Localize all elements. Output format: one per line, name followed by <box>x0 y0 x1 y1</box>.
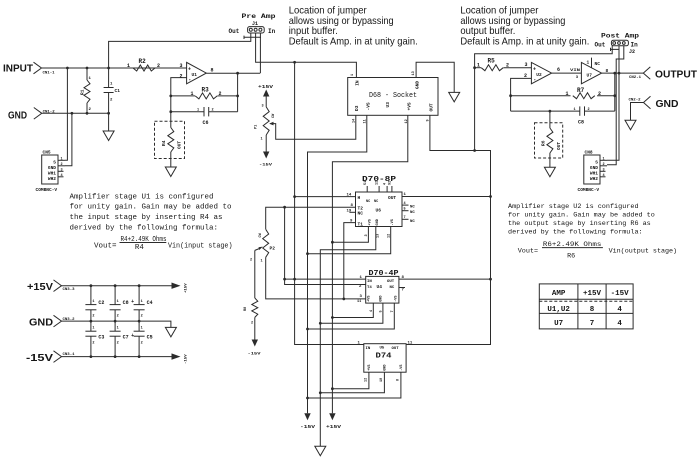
capacitor C5 <box>138 321 140 331</box>
svg-text:NC: NC <box>410 211 415 215</box>
wire J1 In to U1 output <box>259 33 261 73</box>
svg-text:C8: C8 <box>123 300 129 306</box>
svg-text:D68 - Socket: D68 - Socket <box>369 92 417 100</box>
svg-text:+: + <box>131 333 134 339</box>
svg-text:2: 2 <box>219 91 222 97</box>
wire J1 middle to D68 IN <box>256 33 357 78</box>
wire U5 +VS <box>332 372 369 389</box>
svg-text:+: + <box>131 299 134 305</box>
svg-text:4: 4 <box>603 174 605 178</box>
capacitor C3 <box>90 321 92 331</box>
connector CN3-3 <box>54 280 62 292</box>
svg-text:C8: C8 <box>578 120 584 126</box>
svg-text:the output stage by inserting: the output stage by inserting R6 as <box>508 220 651 228</box>
svg-text:R4: R4 <box>135 244 145 252</box>
svg-text:R5: R5 <box>488 58 496 65</box>
svg-text:VIN: VIN <box>570 69 581 73</box>
svg-text:1: 1 <box>141 300 143 304</box>
ground (main bus) <box>315 446 326 456</box>
op-amp U7 buffer <box>581 62 601 83</box>
svg-text:Vout=: Vout= <box>518 247 538 255</box>
svg-text:U1: U1 <box>192 72 198 78</box>
svg-text:GND: GND <box>8 109 27 121</box>
svg-text:GND: GND <box>415 81 421 89</box>
svg-text:13: 13 <box>412 71 416 75</box>
wire U6 -VS <box>308 227 391 254</box>
wire J2 Out to R5 node <box>475 46 613 151</box>
svg-text:IN: IN <box>367 280 372 284</box>
wire -15V rail <box>62 356 172 358</box>
svg-text:In: In <box>631 42 639 49</box>
svg-text:+15V: +15V <box>583 290 602 298</box>
wire U6 H input <box>295 196 356 198</box>
svg-text:92: 92 <box>389 181 393 185</box>
wire U4 -VS <box>308 303 395 329</box>
svg-text:+VS: +VS <box>368 364 372 370</box>
connector CN5 <box>42 155 58 184</box>
wire P2 bottom to U4 pin3 <box>266 257 366 299</box>
capacitor C4 <box>138 286 140 305</box>
svg-text:R6: R6 <box>567 252 575 260</box>
jumper J2 <box>611 40 628 46</box>
svg-text:7: 7 <box>404 216 406 220</box>
connector CN1-1 <box>34 62 42 74</box>
wire U6 T2 to P2 <box>266 207 356 229</box>
svg-text:C1: C1 <box>115 88 121 94</box>
svg-text:2: 2 <box>141 314 143 318</box>
svg-text:1: 1 <box>477 63 480 69</box>
svg-text:IN: IN <box>355 80 361 86</box>
resistor R6 <box>549 111 551 128</box>
svg-text:S: S <box>595 160 598 166</box>
svg-text:-15V: -15V <box>259 164 273 168</box>
svg-text:2: 2 <box>92 314 94 318</box>
svg-text:2: 2 <box>141 342 143 346</box>
svg-text:CN3-3: CN3-3 <box>63 288 76 292</box>
svg-text:R7: R7 <box>577 87 585 94</box>
svg-text:-15V: -15V <box>300 424 315 430</box>
svg-text:Amplifier stage U2 is configur: Amplifier stage U2 is configured <box>508 203 639 211</box>
svg-text:Pre Amp: Pre Amp <box>242 13 277 20</box>
svg-text:1: 1 <box>61 157 63 161</box>
wire D68 OUT bus to buffers <box>406 115 490 344</box>
svg-text:10: 10 <box>380 378 384 382</box>
svg-text:8: 8 <box>397 379 401 381</box>
svg-text:P2: P2 <box>270 246 276 252</box>
wire U2 inverting input <box>511 78 532 111</box>
svg-text:1: 1 <box>566 91 569 97</box>
svg-text:12: 12 <box>405 119 409 123</box>
svg-text:51: 51 <box>364 181 368 185</box>
svg-text:+15V: +15V <box>258 84 273 90</box>
svg-text:CN8: CN8 <box>585 150 593 156</box>
svg-text:-15V: -15V <box>248 353 262 357</box>
svg-text:T1: T1 <box>358 221 364 227</box>
svg-text:R8: R8 <box>244 307 248 311</box>
jumper J2 shunt bar <box>611 48 620 51</box>
svg-text:3: 3 <box>603 168 605 172</box>
wire J2 In to CN8 GND <box>607 46 624 165</box>
svg-text:11: 11 <box>357 300 361 304</box>
svg-text:12: 12 <box>387 234 391 238</box>
svg-text:R1: R1 <box>80 89 86 95</box>
svg-text:7: 7 <box>391 310 395 312</box>
svg-text:OUT: OUT <box>177 141 183 149</box>
svg-text:-15V: -15V <box>26 352 53 364</box>
wire U1 inverting input <box>171 78 187 128</box>
ground (power) <box>165 327 176 337</box>
dashed option box R4 <box>155 121 185 158</box>
svg-text:derived by the following formu: derived by the following formula: <box>508 229 643 237</box>
wire U6 T1 <box>344 223 356 299</box>
svg-text:NC: NC <box>374 200 378 204</box>
capacitor C1 <box>108 68 110 88</box>
connector CN8 <box>584 155 600 184</box>
resistor R3 <box>171 95 195 97</box>
svg-text:OUT: OUT <box>429 103 435 111</box>
svg-text:Default is Amp. in at unity ga: Default is Amp. in at unity gain. <box>289 36 418 48</box>
svg-text:INPUT: INPUT <box>3 63 34 75</box>
svg-text:R3: R3 <box>202 87 210 94</box>
wire P2 wiper to R8 <box>255 248 260 250</box>
svg-text:GND: GND <box>383 364 387 370</box>
power -15V (R8) <box>252 340 258 347</box>
svg-text:+VS: +VS <box>367 295 371 301</box>
svg-text:J2: J2 <box>629 49 635 55</box>
resistor R7 <box>511 95 571 97</box>
svg-text:12: 12 <box>376 181 380 185</box>
resistor R1 <box>86 68 88 80</box>
wire U4 T4 from U6 T2 net <box>285 207 366 284</box>
svg-text:R6: R6 <box>540 140 546 146</box>
svg-text:T4: T4 <box>367 286 372 290</box>
svg-text:GND: GND <box>656 98 679 110</box>
svg-text:WH1: WH1 <box>590 171 598 177</box>
svg-text:Vin(output stage): Vin(output stage) <box>609 248 678 256</box>
power -15V arrow (mid) <box>304 413 310 420</box>
power -15V rail arrow <box>172 353 181 359</box>
svg-text:WH2: WH2 <box>48 176 56 182</box>
svg-text:2: 2 <box>598 91 601 97</box>
svg-text:S: S <box>53 160 56 166</box>
ground (input) <box>108 113 110 131</box>
wire CN5 S to input <box>65 68 67 160</box>
svg-text:2: 2 <box>603 163 605 167</box>
svg-text:4: 4 <box>404 202 406 206</box>
resistor R4 <box>168 128 174 153</box>
socket U3 D68 <box>348 78 438 116</box>
wire U2 feedback right <box>614 73 616 111</box>
svg-text:1: 1 <box>261 260 263 264</box>
wire J1 Out bypass to input node <box>109 33 251 68</box>
wire J2 middle to output and CN8 S <box>607 46 619 161</box>
wire U4 OUT <box>399 278 491 280</box>
ground (D68) <box>449 92 460 102</box>
svg-text:4: 4 <box>617 320 622 328</box>
svg-text:13: 13 <box>376 234 380 238</box>
svg-text:+15V: +15V <box>185 283 189 293</box>
connector CN3-1 <box>54 351 62 363</box>
svg-text:U2: U2 <box>536 72 542 78</box>
capacitor C6 <box>171 111 204 113</box>
svg-text:NC: NC <box>390 286 395 290</box>
svg-text:1: 1 <box>127 63 130 69</box>
svg-text:-VS: -VS <box>366 102 372 110</box>
svg-text:for unity gain. Gain may be ad: for unity gain. Gain may be added to <box>508 212 655 220</box>
wire D68 D3 to P1 wiper <box>270 115 356 139</box>
svg-text:2: 2 <box>251 322 253 326</box>
wire U4 +VS <box>332 303 373 317</box>
svg-text:CN1-1: CN1-1 <box>43 71 56 75</box>
svg-text:1: 1 <box>117 300 119 304</box>
svg-text:1: 1 <box>574 108 576 112</box>
svg-text:R2: R2 <box>139 58 147 65</box>
svg-text:NC: NC <box>410 206 415 210</box>
wire D68 GND pin to ground <box>416 62 454 92</box>
svg-text:4: 4 <box>61 174 63 178</box>
power -15V (P1) <box>263 152 269 159</box>
table power pins <box>539 284 633 329</box>
wire U6 OUT <box>402 196 491 198</box>
svg-text:CN2-2: CN2-2 <box>629 99 642 103</box>
op-amp U2 <box>531 62 551 83</box>
svg-text:11: 11 <box>408 342 413 346</box>
svg-text:+15V: +15V <box>27 281 53 293</box>
svg-text:C2: C2 <box>98 300 104 306</box>
svg-text:1: 1 <box>92 300 94 304</box>
svg-text:2: 2 <box>157 63 160 69</box>
svg-text:Post Amp: Post Amp <box>601 33 640 40</box>
potentiometer P1 <box>263 107 269 135</box>
wire U6 +VS <box>332 227 368 243</box>
svg-text:+: + <box>533 66 536 72</box>
wire U4 NC stub <box>399 287 405 289</box>
svg-text:2: 2 <box>212 109 214 113</box>
resistor R5 <box>475 67 481 69</box>
svg-text:-VS: -VS <box>394 295 398 301</box>
svg-text:5: 5 <box>380 310 384 312</box>
svg-text:1: 1 <box>351 74 355 76</box>
svg-text:-15V: -15V <box>185 354 189 364</box>
svg-text:2: 2 <box>588 108 590 112</box>
wire U2 output to U7 <box>552 72 582 74</box>
svg-text:COMBNC-V: COMBNC-V <box>36 187 58 193</box>
potentiometer P2 <box>263 229 269 257</box>
svg-text:1: 1 <box>191 91 194 97</box>
svg-text:2: 2 <box>92 342 94 346</box>
svg-text:GND: GND <box>376 219 380 225</box>
wire U1 feedback right <box>237 73 239 112</box>
svg-text:-VS: -VS <box>400 364 404 370</box>
dashed option box R6 <box>535 123 563 158</box>
svg-text:4: 4 <box>617 306 622 314</box>
svg-text:2: 2 <box>61 163 63 167</box>
svg-text:C3: C3 <box>98 334 104 340</box>
svg-text:U3: U3 <box>385 102 391 108</box>
wire INPUT net <box>42 67 187 69</box>
wire CN5 GND to gnd net <box>65 113 72 166</box>
svg-text:3: 3 <box>262 105 264 109</box>
svg-text:2: 2 <box>250 259 252 263</box>
svg-text:C5: C5 <box>147 334 153 340</box>
svg-text:Default is Amp. in at unity ga: Default is Amp. in at unity gain. <box>460 36 589 48</box>
ground (CN2-2) <box>625 120 636 130</box>
svg-text:U5: U5 <box>380 347 385 351</box>
wire main signal vertical to U4 U5 <box>295 62 364 344</box>
svg-text:+: + <box>188 66 191 72</box>
power +15V rail arrow <box>172 283 181 289</box>
svg-text:4: 4 <box>384 183 388 185</box>
svg-text:8: 8 <box>590 306 595 314</box>
svg-text:4: 4 <box>370 310 374 312</box>
op-amp U1 <box>187 62 207 83</box>
connector CN3-2 <box>54 315 62 327</box>
svg-text:1: 1 <box>261 138 263 142</box>
svg-text:1: 1 <box>92 327 94 331</box>
svg-text:Out: Out <box>595 42 606 49</box>
svg-text:6: 6 <box>557 67 560 73</box>
wire power GND rail <box>62 321 171 327</box>
svg-text:1: 1 <box>197 109 199 113</box>
capacitor C7 <box>114 321 116 331</box>
svg-text:for unity gain. Gain may be ad: for unity gain. Gain may be added to <box>70 204 233 212</box>
svg-text:3: 3 <box>180 63 183 69</box>
wire U5 -VS <box>308 372 401 398</box>
wire +15V rail <box>62 285 172 287</box>
svg-text:1: 1 <box>141 327 143 331</box>
svg-text:WH2: WH2 <box>590 176 598 182</box>
junction dots on input wire <box>66 67 69 70</box>
svg-text:Amplifier stage U1 is configur: Amplifier stage U1 is configured <box>70 193 214 201</box>
svg-text:U1,U2: U1,U2 <box>547 306 570 314</box>
svg-text:+VS: +VS <box>407 102 413 110</box>
svg-text:COMBNC-V: COMBNC-V <box>578 187 600 193</box>
wire D68 +VS to +15V bus <box>332 115 407 413</box>
svg-text:U4: U4 <box>377 284 383 290</box>
svg-text:2: 2 <box>117 342 119 346</box>
svg-text:R4: R4 <box>161 140 167 146</box>
svg-text:GND: GND <box>29 317 53 329</box>
svg-text:C4: C4 <box>147 300 153 306</box>
svg-text:C7: C7 <box>123 334 129 340</box>
svg-text:D3: D3 <box>354 105 360 111</box>
wire U4 IN <box>285 278 366 280</box>
wire input GND net <box>42 112 109 114</box>
svg-text:CN2-1: CN2-1 <box>629 76 642 80</box>
svg-text:D74: D74 <box>376 353 393 361</box>
svg-text:1: 1 <box>603 157 605 161</box>
svg-text:Out: Out <box>229 28 240 35</box>
wire U4 GND <box>320 303 383 323</box>
svg-text:OUTPUT: OUTPUT <box>655 69 698 81</box>
svg-text:2: 2 <box>506 63 509 69</box>
U6 NC stubs right <box>402 204 409 206</box>
svg-text:12: 12 <box>365 378 369 382</box>
svg-text:NC: NC <box>358 211 364 217</box>
svg-text:P1: P1 <box>255 125 259 129</box>
resistor R8 <box>252 298 258 317</box>
svg-text:C6: C6 <box>203 120 209 126</box>
svg-text:U6: U6 <box>376 208 382 214</box>
svg-text:7: 7 <box>590 320 595 328</box>
wire U5 GND <box>320 372 384 393</box>
svg-text:OUT: OUT <box>392 347 400 351</box>
svg-text:CN5: CN5 <box>43 150 51 156</box>
resistor R2 <box>133 65 155 71</box>
svg-text:8: 8 <box>211 68 214 74</box>
svg-text:derived by the following formu: derived by the following formula: <box>70 225 219 233</box>
svg-text:NC: NC <box>366 200 370 204</box>
jumper J1 shunt bar <box>244 36 261 39</box>
wire U1 output <box>206 72 260 74</box>
svg-text:the input stage by inserting R: the input stage by inserting R4 as <box>70 214 223 222</box>
connector CN1-2 <box>34 108 42 120</box>
capacitor C8 <box>511 110 580 112</box>
svg-text:GND: GND <box>379 295 383 301</box>
wire U6 GND to ground bus <box>320 227 376 447</box>
svg-text:19: 19 <box>347 210 352 214</box>
svg-text:NC: NC <box>410 220 415 224</box>
svg-text:-15V: -15V <box>611 290 630 298</box>
svg-text:OUT: OUT <box>387 280 395 284</box>
svg-text:GND: GND <box>590 165 598 171</box>
IC U5 D74 <box>364 344 406 373</box>
svg-text:H: H <box>358 195 361 201</box>
capacitor C2 <box>90 286 92 305</box>
wire D68 -VS to -15V bus <box>308 115 367 413</box>
svg-text:WH1: WH1 <box>48 171 56 177</box>
svg-text:1: 1 <box>587 60 590 66</box>
svg-text:+15V: +15V <box>326 424 341 430</box>
ground (R4) <box>170 152 172 167</box>
svg-text:2: 2 <box>117 314 119 318</box>
svg-text:In: In <box>268 28 276 35</box>
svg-text:1: 1 <box>117 327 119 331</box>
svg-text:OUT: OUT <box>388 195 396 201</box>
svg-text:Vin(input stage): Vin(input stage) <box>168 243 233 251</box>
svg-text:IN: IN <box>366 347 371 351</box>
wire U6 T2 stub <box>349 211 355 213</box>
svg-text:3: 3 <box>525 62 528 68</box>
svg-text:GND: GND <box>48 165 56 171</box>
svg-text:3: 3 <box>365 234 369 236</box>
svg-text:AMP: AMP <box>552 290 566 298</box>
svg-text:5: 5 <box>404 207 406 211</box>
svg-text:OUT: OUT <box>556 142 562 150</box>
svg-text:8: 8 <box>606 68 609 74</box>
capacitor C8 <box>114 286 116 305</box>
power +15V arrow (mid) <box>329 413 335 420</box>
wire U7 output <box>602 72 644 74</box>
svg-text:2: 2 <box>180 74 183 80</box>
svg-text:+VS: +VS <box>368 219 372 225</box>
svg-text:-VS: -VS <box>391 219 395 225</box>
ground (R6) <box>549 153 551 167</box>
svg-text:U7: U7 <box>554 320 563 328</box>
svg-text:U7: U7 <box>587 73 593 79</box>
svg-text:3: 3 <box>61 168 63 172</box>
connector CN2-2 GND <box>631 103 644 121</box>
svg-text:Vout=: Vout= <box>94 243 117 251</box>
svg-text:NC: NC <box>595 61 601 67</box>
